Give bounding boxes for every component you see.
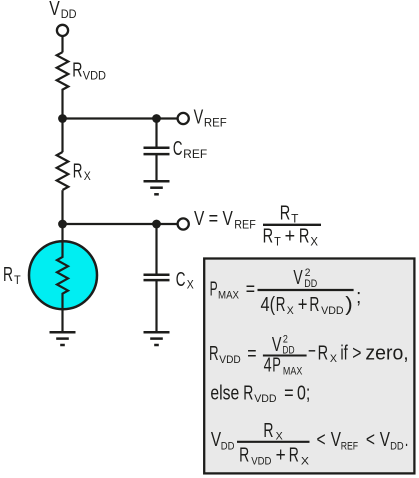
svg-text:T: T <box>291 213 298 225</box>
wire RX to node 2 <box>61 190 63 241</box>
svg-text:R: R <box>239 445 249 467</box>
svg-text:DD: DD <box>304 278 317 290</box>
label RVDD <box>72 60 106 83</box>
svg-text:T: T <box>14 275 21 287</box>
svg-text:DD: DD <box>221 440 235 452</box>
svg-text:2: 2 <box>283 334 288 346</box>
equation 3: VDD RX/(RVDD+RX) < VREF < VDD <box>211 420 408 468</box>
equation 1: PMAX <box>210 267 362 317</box>
label CX <box>176 269 194 292</box>
svg-text:0;: 0; <box>297 382 310 404</box>
svg-text:R: R <box>289 445 299 467</box>
wire node1 to VREF terminal <box>63 117 178 119</box>
svg-text:V: V <box>194 208 205 230</box>
svg-text:): ) <box>345 294 353 316</box>
resistor RX <box>57 152 69 190</box>
svg-text:<: < <box>317 429 326 451</box>
wire CREF to ground <box>155 154 157 180</box>
svg-text:X: X <box>301 455 310 467</box>
svg-text:R: R <box>280 203 291 225</box>
svg-text:V: V <box>380 429 391 451</box>
ground (CREF) <box>144 181 170 194</box>
fraction bar eq3 <box>237 441 310 443</box>
svg-text:R: R <box>3 264 13 286</box>
svg-text:if: if <box>340 342 348 364</box>
svg-text:V: V <box>194 107 204 129</box>
wire CREF top <box>155 119 157 147</box>
thermistor RT internal element <box>57 242 68 310</box>
svg-text:VDD: VDD <box>251 455 271 467</box>
label RX <box>73 160 91 183</box>
svg-text:R: R <box>318 342 329 364</box>
wire RT to ground <box>61 309 63 331</box>
svg-text:X: X <box>330 353 338 365</box>
svg-text:R: R <box>72 60 82 82</box>
svg-text:V: V <box>293 267 303 289</box>
svg-text:VDD: VDD <box>219 354 241 366</box>
svg-text:zero,: zero, <box>365 342 408 364</box>
svg-text:=: = <box>246 279 255 301</box>
svg-text:=: = <box>247 343 256 365</box>
svg-text:R: R <box>243 382 253 404</box>
VDD terminal <box>57 25 68 36</box>
svg-text:+: + <box>298 294 308 316</box>
wire VDD to RVDD <box>61 36 63 52</box>
svg-text:T: T <box>274 237 281 249</box>
svg-text:R: R <box>299 226 310 248</box>
svg-text:V: V <box>223 208 234 230</box>
svg-text:;: ; <box>356 286 361 308</box>
svg-text:+: + <box>285 226 296 248</box>
label RT <box>3 264 21 287</box>
svg-text:R: R <box>263 226 274 248</box>
node 2 junction <box>58 220 67 229</box>
svg-text:C: C <box>176 269 186 291</box>
svg-text:R: R <box>209 343 219 365</box>
svg-text:X: X <box>310 237 318 249</box>
svg-text:V: V <box>272 334 282 356</box>
svg-text:VDD: VDD <box>254 393 276 405</box>
equation 2: RVDD <box>209 334 409 378</box>
svg-text:P: P <box>272 355 281 377</box>
svg-text:P: P <box>210 279 218 301</box>
label VREF <box>194 107 227 130</box>
ground (CX) <box>144 332 170 345</box>
svg-text:MAX: MAX <box>283 365 303 377</box>
svg-text:DD: DD <box>390 440 404 452</box>
fraction bar RT/(RT+RX) <box>263 224 321 226</box>
node 1 junction <box>58 114 67 123</box>
svg-text:X: X <box>287 305 295 317</box>
svg-text:=: = <box>284 382 294 404</box>
wire node2 to V terminal <box>63 223 178 225</box>
svg-text:REF: REF <box>234 219 256 231</box>
junction at CREF tap <box>152 114 161 123</box>
node VDD label <box>49 0 76 21</box>
thermistor RT body <box>29 241 97 309</box>
svg-text:R: R <box>263 420 273 442</box>
svg-text:4: 4 <box>264 355 272 377</box>
svg-text:REF: REF <box>204 117 227 129</box>
svg-text:2: 2 <box>305 267 311 279</box>
svg-text:−: − <box>308 341 316 363</box>
fraction bar eq1 <box>258 289 354 291</box>
capacitor CREF <box>144 148 170 154</box>
svg-text:.: . <box>405 429 409 451</box>
fraction bar eq2 <box>263 355 307 357</box>
resistor RVDD <box>57 52 69 89</box>
node V output formula <box>194 203 318 249</box>
wire CX to ground <box>155 280 157 331</box>
svg-text:R: R <box>276 294 286 316</box>
equation 2b: else RVDD = 0 <box>210 382 310 405</box>
svg-text:X: X <box>187 280 194 292</box>
svg-text:else: else <box>210 382 239 404</box>
svg-text:=: = <box>209 208 219 230</box>
junction at CX tap <box>152 220 161 229</box>
svg-text:X: X <box>84 171 91 183</box>
svg-text:VDD: VDD <box>83 71 106 83</box>
VREF terminal <box>178 113 189 124</box>
svg-text:V: V <box>49 0 60 20</box>
capacitor CX <box>144 275 170 280</box>
svg-text:+: + <box>276 445 286 467</box>
svg-text:4(: 4( <box>261 294 276 316</box>
V terminal <box>178 218 189 229</box>
svg-text:DD: DD <box>61 9 77 21</box>
svg-text:REF: REF <box>183 149 207 161</box>
equation box <box>204 259 414 474</box>
svg-text:R: R <box>73 160 83 182</box>
wire CX top <box>155 224 157 274</box>
svg-text:C: C <box>173 138 183 160</box>
wire RVDD to node 1 and RX <box>61 89 63 152</box>
svg-text:>: > <box>352 342 361 364</box>
svg-text:REF: REF <box>341 440 359 452</box>
ground (RT) <box>50 332 76 345</box>
svg-text:MAX: MAX <box>218 290 240 302</box>
svg-text:VDD: VDD <box>321 305 344 317</box>
svg-text:R: R <box>309 294 319 316</box>
svg-text:<: < <box>366 429 375 451</box>
label CREF <box>173 138 207 161</box>
